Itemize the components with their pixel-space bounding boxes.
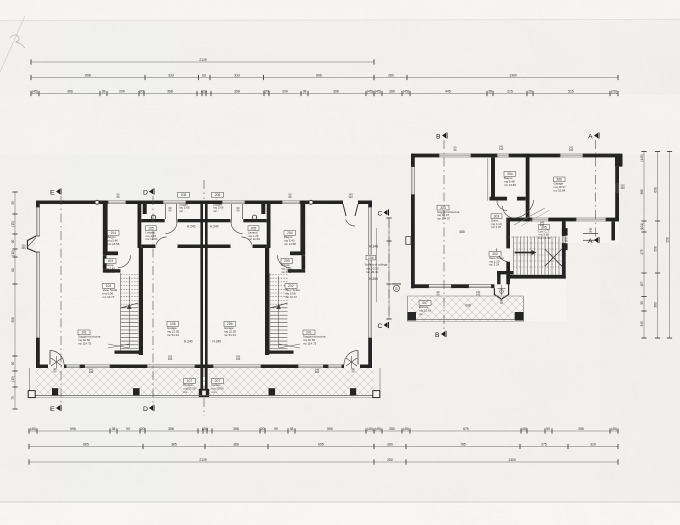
- wall: unit W top segment 1: [36, 201, 108, 205]
- garage door dim text: [540, 221, 545, 228]
- wall: unit E below bagno: [290, 251, 305, 255]
- wall: terrace east stub: [611, 221, 615, 240]
- section marker B top: [436, 132, 447, 140]
- window: unit E top-mid 90/90: [282, 201, 300, 205]
- window dim text loggia E: [237, 206, 240, 213]
- wall: right plan bottom segment 1: [411, 284, 429, 288]
- wall: unit E disimpegno side: [302, 255, 306, 269]
- window: unit W top-mid 90/90: [108, 201, 126, 205]
- wall: right plan east mid lower: [562, 243, 566, 278]
- dimension chain: bottom row 3 (2129/280/1300): [29, 458, 618, 465]
- wall: unit W lavanderia bottom east: [178, 245, 205, 249]
- portico pillar right plan west: [408, 312, 417, 321]
- staircase right plan: treads: [506, 237, 562, 275]
- door: garage bottom: [532, 218, 549, 222]
- portico bottom edge right plan: [408, 319, 524, 321]
- wall: unit E stair bottom wall: [265, 351, 294, 354]
- room label 203 Disimpegno: [281, 259, 293, 274]
- wall: unit E loggia sill east part: [204, 219, 231, 222]
- section marker C bottom: [378, 322, 389, 330]
- wall: bagno 304 south east part: [517, 197, 526, 201]
- wall: right plan left upper block: [411, 154, 415, 167]
- floor fill right plan: [411, 153, 619, 243]
- window dim text top W: [117, 193, 120, 200]
- wall: unit E bottom segment 1: [360, 365, 372, 369]
- wall: right plan left lower: [411, 195, 415, 289]
- terrace dim 30/90: [589, 227, 592, 234]
- loggia door funnel: unit W: [165, 204, 167, 219]
- room label 303 Soggiorno/cucina: [437, 205, 460, 220]
- wall: unit W lavanderia bottom west: [141, 245, 155, 249]
- corner pilaster: garage top-right: [615, 154, 623, 167]
- door arc: bagno 304: [497, 201, 507, 211]
- stair break cross right plan: [545, 249, 562, 266]
- wall: unit E loggia sill west part: [243, 219, 266, 222]
- wall: right plan top segment 2: [471, 154, 497, 158]
- wall: soggiorno-stair divider lower: [506, 262, 510, 284]
- wall: unit E side lower block: [368, 338, 372, 368]
- portico pillar W1: [52, 388, 58, 395]
- splayed window bay: unit E top wall: [343, 204, 358, 216]
- garage door dim W: [168, 355, 173, 362]
- garage door dim E: [236, 355, 241, 362]
- wall: unit W top segment 3: [126, 201, 163, 205]
- section line D-D: [152, 196, 154, 404]
- wall: unit E lavanderia bottom west: [253, 245, 267, 249]
- door arc: disimpegno large: [513, 200, 534, 218]
- portico corner post east (open square): [373, 391, 380, 398]
- room label 202 Vano Scala: [285, 284, 300, 299]
- window: unit W bottom 90/90: [66, 365, 80, 369]
- section marker E top: [50, 188, 61, 196]
- window: unit W bottom 240/240: [85, 365, 111, 369]
- window: unit W side lower (long): [36, 252, 40, 338]
- window: right plan bottom 90/90: [429, 284, 452, 288]
- wall: unit E top segment 1a: [358, 201, 372, 205]
- section marker B bottom: [435, 331, 446, 339]
- wall: unit W bottom jamb: [64, 365, 67, 369]
- dimension chain: top row 2 right plan (280/1300): [374, 73, 618, 80]
- door arc: unit W lavanderia: [156, 237, 167, 248]
- dimension chain: bottom row 1 left plan: [29, 427, 374, 434]
- door arc: disimpegno small: [503, 206, 515, 218]
- room label 307 Portico: [419, 301, 431, 316]
- window dim right bottom 2: [476, 290, 481, 297]
- pencil scribble top-left: [10, 35, 25, 48]
- scan top edge line: [0, 20, 680, 21]
- window: right plan bottom 140/140: [469, 284, 492, 288]
- room label 104 Bagno: [108, 231, 120, 246]
- window dim text top E: [289, 193, 292, 200]
- faint paper mottling: [60, 22, 180, 502]
- window: garage east wall 250/100: [615, 183, 619, 193]
- stair arrow right plan: [515, 252, 532, 254]
- wall: unit E bottom segment 4: [204, 365, 213, 369]
- wall: unit E bottom segment 2: [323, 365, 328, 369]
- door arc: unit W bagno door: [118, 255, 131, 268]
- wall: unit W bottom segment 3: [110, 365, 147, 369]
- portico bottom edge lines: [30, 395, 381, 397]
- room label 101 Soggiorno/cucina: [78, 330, 101, 345]
- door arc: unit W entrance: [50, 351, 64, 365]
- window: right plan top (bagno): [497, 154, 509, 158]
- portico top edge right plan: [408, 295, 524, 297]
- wall: garage east: [615, 167, 619, 222]
- room label 308 Disimpegno: [491, 214, 502, 229]
- wall: stair south: [509, 275, 566, 279]
- wall: unit E bottom segment 3: [261, 365, 298, 369]
- window dim text bottom E1: [352, 367, 355, 374]
- threshold marker (shrub X): unit E entrance: [346, 356, 357, 368]
- dimension chain: bottom row 1 right plan: [374, 427, 618, 434]
- door arc: stair hall door: [496, 248, 510, 262]
- entry door bay (pentagon) right plan: [494, 281, 508, 299]
- sill bump on left wall: [406, 237, 411, 245]
- face line left of bagno wall: [487, 158, 489, 201]
- column circle: unit W loggia corner: [151, 215, 155, 219]
- window: right plan left wall: [411, 167, 415, 195]
- wall stub: unit E loggia west jamb: [261, 204, 265, 214]
- wall: unit W bottom segment 2: [80, 365, 85, 369]
- window dim right top: [454, 146, 457, 153]
- room label 204 Bagno: [284, 231, 296, 246]
- dimension chain: top row 1 (2129) left plan: [31, 58, 374, 65]
- window: unit W side upper: [36, 207, 40, 236]
- section marker A top: [588, 132, 599, 140]
- room label 305 Lavanderia-CT: [539, 225, 551, 240]
- window dim text bottom W1: [54, 367, 57, 374]
- wall: unit W bagno east side: [138, 204, 142, 248]
- circled S symbol: [392, 283, 401, 291]
- window: unit E bottom 90/90: [328, 365, 342, 369]
- wall: unit E bagno east side: [267, 204, 271, 248]
- wall: garage west (shared): [526, 154, 530, 222]
- window dim text loggia W: [169, 206, 172, 213]
- pillar: party wall base block: [199, 389, 209, 397]
- garage door opening: unit E: [213, 365, 261, 369]
- wall: unit E outer side upper block: [368, 201, 372, 208]
- aux vertical line between plans: [376, 228, 378, 302]
- wall: stair/garage band segment 2: [549, 218, 576, 222]
- section line E-E: [60, 196, 62, 404]
- room label 201 Soggiorno/cucina: [303, 330, 326, 345]
- wall: unit W bagno west side: [103, 204, 108, 252]
- room label 103 Disimpegno: [105, 259, 117, 274]
- wall: unit E bagno west side: [300, 204, 305, 252]
- threshold marker (shrub X): unit W entrance: [51, 356, 62, 368]
- scan bottom shadow: [0, 501, 680, 503]
- wall: right plan top segment 3: [509, 154, 560, 158]
- wall: stair/garage band segment 3: [606, 218, 619, 222]
- staircase: unit E treads: [270, 273, 288, 351]
- window: unit E loggia opening: [222, 201, 245, 205]
- wall: unit W outer side upper block: [36, 201, 40, 208]
- section marker D bottom: [143, 405, 154, 413]
- door arc: unit E entrance: [344, 351, 358, 365]
- wall: unit E top segment 1b: [300, 201, 343, 205]
- room label 208 Loggia: [212, 192, 224, 197]
- window dim entry door: [500, 299, 503, 306]
- wall: unit W loggia sill east part: [178, 219, 205, 222]
- loggia door funnel: unit E: [242, 204, 244, 219]
- window dim right bottom 1: [437, 290, 440, 297]
- wall: right plan top segment 4: [583, 154, 619, 158]
- dimension chain: right vertical outer: [665, 152, 672, 339]
- section line A-A: [595, 140, 597, 237]
- section line B-B: [443, 140, 445, 331]
- window dim text E splay bay: [348, 193, 353, 200]
- section marker A bottom: [588, 237, 599, 245]
- window dim right top 2: [499, 145, 504, 152]
- window dim garage top: [569, 146, 574, 153]
- column circle: unit E loggia corner: [252, 215, 256, 219]
- door arc: unit E bagno door: [278, 255, 291, 268]
- dimension chain: middle vertical (between plans): [386, 218, 391, 319]
- page corner fold diagonal: [0, 16, 25, 72]
- terrace wall line behind garage: [583, 233, 598, 235]
- dimension chain: right vertical middle: [653, 152, 660, 339]
- window: right plan garage top: [560, 154, 583, 158]
- room label 107 Portico: [184, 379, 196, 394]
- section marker C top: [378, 209, 389, 217]
- dimension chain: right vertical inner: [640, 152, 647, 339]
- wall: unit E top segment 3: [245, 201, 282, 205]
- room label 302 Vano Scala: [489, 251, 504, 266]
- wall: unit W bottom segment 1: [36, 365, 48, 369]
- wall: bagno 304 south west part: [490, 197, 508, 201]
- wall: entry recess top: [497, 271, 513, 274]
- wall: entry recess west: [497, 271, 500, 284]
- wall: unit W disimpegno side: [103, 255, 107, 269]
- room label 306 Garage: [554, 177, 566, 192]
- wall: unit E stair east wall: [265, 248, 269, 355]
- door arc: unit W loggia: [166, 222, 178, 234]
- staircase: unit W treads: [121, 273, 139, 351]
- wall: right plan bottom segment 2: [451, 284, 468, 288]
- window dim text bottom W2: [89, 367, 94, 374]
- wall: right plan bottom segment 3: [491, 284, 494, 288]
- room label 108 Loggia: [178, 192, 190, 197]
- room label 207 Portico: [212, 379, 224, 394]
- door jamb blocks terrace door: [562, 228, 568, 236]
- wall: unit W loggia sill west part: [141, 219, 164, 222]
- portico pillar E2: [350, 388, 356, 395]
- portico floor hatch (left plan): [36, 368, 374, 396]
- window: right plan top-left: [439, 154, 471, 158]
- wall: unit W stair bottom wall: [115, 351, 144, 354]
- window: garage south: [576, 218, 606, 222]
- room label 205 Lavanderia: [248, 226, 260, 241]
- dimension chain: bottom row 2 right plan (280/785/275/320): [374, 442, 618, 449]
- wall: right plan top segment 1: [411, 154, 439, 158]
- wall stub: unit W loggia west jamb: [143, 204, 147, 214]
- wall: unit E bottom jamb: [342, 365, 345, 369]
- dimension chain: bottom row 2 left plan (695/365/366/695): [29, 442, 374, 449]
- room label 304 Bagno: [504, 172, 516, 187]
- centre axis line of duplex: [203, 180, 205, 199]
- wall: unit W disimpegno bottom: [103, 269, 121, 272]
- label 206 soffitta: [366, 255, 376, 260]
- wall: unit E top segment 4: [204, 201, 222, 205]
- floor fill left plan: [36, 200, 374, 396]
- room label 102 Vano Scala: [103, 284, 118, 299]
- party wall continuation through portico: [199, 368, 209, 390]
- portico corner post west (open square): [28, 391, 35, 398]
- wall: soggiorno-stair divider upper: [506, 218, 510, 249]
- door arc: unit E lavanderia: [242, 237, 253, 248]
- dimension chain: left edge vertical: [11, 192, 18, 409]
- window: terrace door east wall: [562, 236, 566, 244]
- portico floor hatch (right plan): [411, 296, 524, 321]
- wall: unit W below bagno: [103, 251, 118, 255]
- wall: unit W stair east wall: [139, 248, 143, 355]
- threshold cross mark: unit E: [279, 344, 300, 348]
- dimension chain: top row 3 left plan: [31, 89, 374, 96]
- window: unit E side (full): [368, 207, 372, 338]
- window: unit E bottom 240/240: [298, 365, 324, 369]
- portico pillar W2: [133, 388, 140, 395]
- diagonal pencil stroke above stair: [514, 208, 545, 225]
- window: unit W loggia opening: [163, 201, 186, 205]
- terrace door dim: [565, 237, 568, 244]
- dimension chain: top row 2 left plan (696/333/63/333/696): [31, 73, 374, 80]
- door arc: unit E loggia: [231, 222, 243, 234]
- wall: unit E lavanderia bottom east: [204, 245, 231, 249]
- room label 206 Garage: [224, 322, 236, 337]
- entrance bay: unit W side wall: [28, 236, 37, 252]
- window dim text bottom E2: [315, 367, 320, 374]
- wall: right plan east mid upper: [562, 221, 566, 235]
- wall: unit W bottom segment 4: [195, 365, 204, 369]
- wall: unit W side lower block: [36, 338, 40, 368]
- wall: unit W top segment 4: [186, 201, 204, 205]
- wall: party wall (center, double): [200, 201, 203, 369]
- room label 106 Garage: [167, 322, 179, 337]
- section marker D top: [143, 188, 154, 196]
- garage door opening: unit W: [147, 365, 195, 369]
- threshold cross mark: unit W: [108, 344, 129, 348]
- section marker E bottom: [50, 405, 61, 413]
- wall: stair/garage band segment 1: [510, 218, 532, 222]
- room label 105 Lavanderia: [146, 226, 158, 241]
- portico pillar right plan east: [515, 312, 524, 321]
- section line C-C: [388, 219, 390, 318]
- wall: bagno 304 west: [491, 157, 495, 200]
- portico pillar E1: [269, 388, 276, 395]
- wall: unit E disimpegno bottom: [288, 269, 306, 272]
- entrance bay dim W: [21, 244, 26, 251]
- garage window dim text: [620, 184, 625, 191]
- dimension chain: top row 3 right plan: [374, 89, 618, 96]
